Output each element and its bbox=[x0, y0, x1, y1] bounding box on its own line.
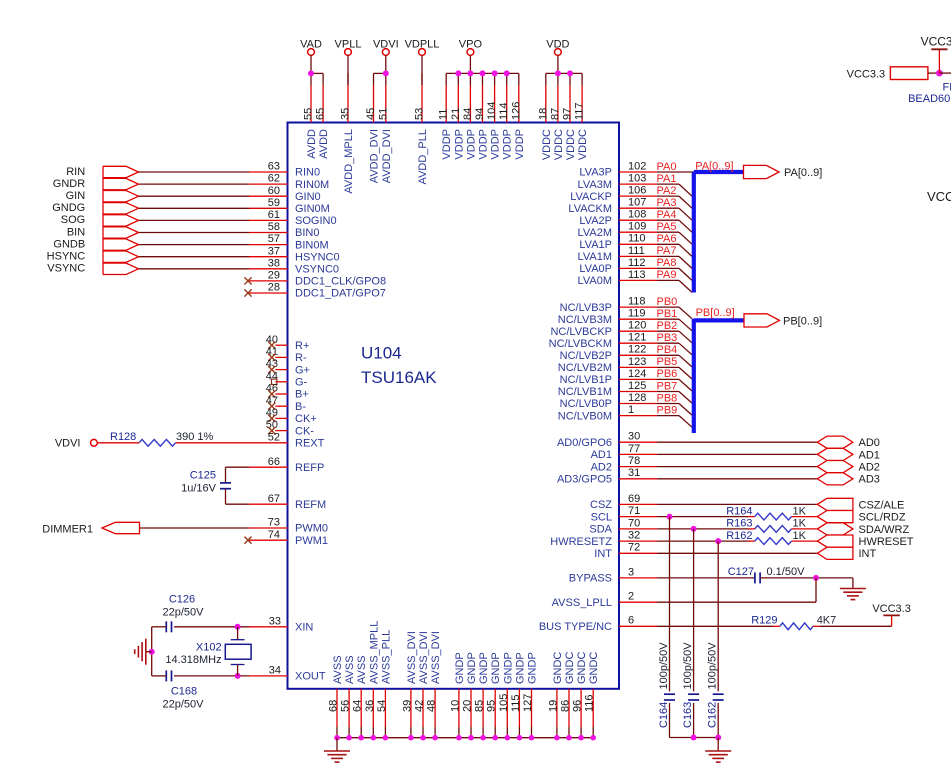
junction VAD bbox=[308, 70, 314, 76]
svg-text:1u/16V: 1u/16V bbox=[181, 483, 217, 495]
svg-text:GNDC: GNDC bbox=[576, 652, 588, 684]
pin 10 (GNDP) bbox=[449, 652, 466, 737]
resistor R128 bbox=[110, 431, 214, 446]
svg-text:C127: C127 bbox=[728, 566, 754, 578]
no-connect X pin 43 bbox=[268, 366, 275, 373]
junction bead bbox=[936, 70, 943, 77]
port HWRESET bbox=[817, 535, 913, 548]
wire REFP to C125 bbox=[226, 467, 250, 483]
pin 61 (SOGIN0) bbox=[249, 209, 337, 227]
svg-text:45: 45 bbox=[365, 108, 377, 120]
svg-text:AD3/GPO5: AD3/GPO5 bbox=[557, 474, 612, 486]
svg-text:HSYNC: HSYNC bbox=[47, 251, 86, 263]
svg-text:PB8: PB8 bbox=[657, 392, 678, 404]
wire SOG bbox=[139, 219, 250, 221]
svg-text:100p/50V: 100p/50V bbox=[682, 642, 694, 690]
pin 124 (NC/LVB1P) bbox=[560, 368, 657, 386]
power VCC3.3 (R129) bbox=[872, 603, 911, 627]
wire PB2 bbox=[657, 331, 692, 343]
svg-text:1K: 1K bbox=[793, 518, 807, 530]
junction rail 36 bbox=[371, 735, 377, 741]
power port VDD bbox=[546, 39, 569, 74]
net label PB4 bbox=[657, 344, 678, 356]
svg-text:NC/LVB0M: NC/LVB0M bbox=[558, 410, 612, 422]
svg-text:69: 69 bbox=[628, 493, 640, 505]
svg-text:AVSS_DVI: AVSS_DVI bbox=[406, 631, 418, 684]
junction rail 56 bbox=[346, 735, 352, 741]
svg-text:VDDP: VDDP bbox=[453, 129, 465, 160]
svg-text:U104: U104 bbox=[361, 344, 402, 363]
junction rail 105 bbox=[505, 735, 511, 741]
svg-text:BYPASS: BYPASS bbox=[569, 573, 612, 585]
svg-text:R-: R- bbox=[295, 352, 307, 364]
junction XIN bbox=[235, 624, 241, 630]
svg-text:VCC3.3: VCC3.3 bbox=[847, 68, 886, 80]
wire GNDR bbox=[139, 183, 250, 185]
pin 74 (PWM1) bbox=[249, 529, 328, 547]
svg-text:VCC3.3: VCC3.3 bbox=[921, 34, 951, 48]
svg-text:GNDC: GNDC bbox=[552, 652, 564, 684]
svg-text:59: 59 bbox=[268, 197, 280, 209]
svg-text:PA[0..9]: PA[0..9] bbox=[695, 160, 733, 172]
wire C164 lower bbox=[669, 703, 671, 738]
pin 65 (AVDD) bbox=[315, 73, 331, 158]
svg-text:AVSS: AVSS bbox=[344, 655, 356, 684]
svg-text:102: 102 bbox=[628, 160, 646, 172]
pin 42 (AVSS_DVI) bbox=[414, 631, 431, 738]
svg-text:NC/LVB1P: NC/LVB1P bbox=[560, 374, 612, 386]
port SCL/RDZ bbox=[817, 511, 906, 524]
wire VAD manifold bbox=[311, 72, 323, 74]
svg-text:PA0: PA0 bbox=[657, 161, 677, 173]
port SDA/WRZ bbox=[817, 523, 909, 536]
svg-text:PA8: PA8 bbox=[657, 257, 677, 269]
svg-text:VDVI: VDVI bbox=[373, 39, 399, 51]
capacitor C126 bbox=[163, 593, 205, 632]
net label PB6 bbox=[657, 368, 678, 380]
svg-text:18: 18 bbox=[537, 108, 549, 120]
port AD1 bbox=[817, 448, 880, 461]
wire PB5 bbox=[657, 367, 692, 379]
svg-text:BIN0: BIN0 bbox=[295, 227, 319, 239]
junction SDA bbox=[691, 526, 697, 532]
svg-text:28: 28 bbox=[268, 282, 280, 294]
pin 111 (LVA1M) bbox=[578, 245, 657, 263]
svg-text:46: 46 bbox=[266, 383, 278, 395]
pin 126 (VDDP) bbox=[510, 73, 526, 159]
svg-text:20: 20 bbox=[462, 700, 474, 712]
svg-text:VDDC: VDDC bbox=[541, 129, 553, 160]
svg-text:GNDG: GNDG bbox=[52, 202, 85, 214]
wire PA8 bbox=[657, 268, 692, 280]
pin 97 (VDDC) bbox=[562, 73, 578, 160]
pin 18 (VDDC) bbox=[537, 73, 553, 160]
svg-text:105: 105 bbox=[498, 694, 510, 712]
svg-text:PA6: PA6 bbox=[657, 233, 677, 245]
port PB[0..9] bbox=[744, 314, 822, 328]
wire C168 left bbox=[152, 675, 167, 677]
wire PB0 bbox=[657, 307, 692, 319]
junction rail 19 bbox=[554, 735, 560, 741]
net label PB2 bbox=[657, 320, 678, 332]
wire C126 left bbox=[152, 626, 167, 628]
junction rail 64 bbox=[358, 735, 364, 741]
wire VDD manifold bbox=[546, 72, 582, 74]
svg-text:34: 34 bbox=[269, 665, 281, 677]
svg-text:68: 68 bbox=[328, 700, 340, 712]
svg-text:42: 42 bbox=[414, 700, 426, 712]
svg-text:36: 36 bbox=[364, 700, 376, 712]
svg-text:87: 87 bbox=[549, 108, 561, 120]
svg-text:67: 67 bbox=[268, 493, 280, 505]
svg-text:GNDP: GNDP bbox=[527, 652, 539, 684]
ferrite bead FB bbox=[890, 67, 951, 105]
crystal X102 bbox=[165, 627, 251, 676]
svg-text:14.318MHz: 14.318MHz bbox=[165, 654, 221, 666]
svg-text:60: 60 bbox=[268, 185, 280, 197]
junction VDD bbox=[567, 70, 573, 76]
wire cap gnd rail bbox=[670, 737, 719, 739]
capacitor C127 bbox=[728, 566, 805, 583]
svg-text:GIN0M: GIN0M bbox=[295, 203, 330, 215]
pin 66 (REFP) bbox=[249, 456, 324, 474]
input arrow GNDG bbox=[103, 203, 139, 214]
wire PA6 bbox=[657, 244, 692, 256]
wire DIMMER1 bbox=[140, 527, 250, 529]
wire BIN bbox=[139, 232, 250, 234]
svg-text:AVSS_MPLL: AVSS_MPLL bbox=[368, 621, 380, 684]
svg-text:38: 38 bbox=[268, 257, 280, 269]
svg-text:VDDC: VDDC bbox=[565, 129, 577, 160]
signal label GNDG bbox=[52, 202, 85, 214]
net label PB0 bbox=[657, 296, 678, 308]
power VCC3.3 top bbox=[921, 34, 951, 73]
svg-text:HWRESETZ: HWRESETZ bbox=[550, 536, 612, 548]
wire C125 to REFM bbox=[226, 489, 250, 504]
pin 127 (GNDP) bbox=[522, 652, 539, 737]
pin 123 (NC/LVB2M) bbox=[558, 356, 657, 374]
wire C163 upper bbox=[693, 529, 695, 692]
pin 54 (AVSS_PLL) bbox=[376, 630, 393, 738]
wire gnd stem bbox=[717, 738, 719, 752]
svg-text:107: 107 bbox=[628, 197, 646, 209]
svg-text:11: 11 bbox=[438, 109, 450, 120]
wire AD0 bbox=[657, 441, 817, 443]
no-connect X pin 46 bbox=[268, 390, 275, 397]
junction VDVI bbox=[383, 70, 389, 76]
no-connect X pin 28 bbox=[244, 289, 251, 296]
svg-text:39: 39 bbox=[401, 700, 413, 712]
signal label GNDB bbox=[53, 238, 85, 250]
svg-text:NC/LVBCKM: NC/LVBCKM bbox=[549, 338, 612, 350]
svg-text:LVACKM: LVACKM bbox=[568, 203, 612, 215]
net label VCC (right edge) bbox=[927, 189, 951, 204]
pin 31 (AD3/GPO5) bbox=[557, 467, 657, 485]
wire C127 to gnd bbox=[760, 578, 853, 589]
input arrow GIN bbox=[103, 191, 139, 202]
svg-text:41: 41 bbox=[266, 346, 278, 358]
svg-text:AD1: AD1 bbox=[859, 449, 880, 461]
svg-text:GIN0: GIN0 bbox=[295, 191, 321, 203]
pin 6 (BUS TYPE/NC) bbox=[539, 615, 657, 633]
wire AVSS_LPLL bbox=[657, 578, 816, 602]
pin 32 (HWRESETZ) bbox=[550, 530, 657, 548]
svg-text:48: 48 bbox=[426, 700, 438, 712]
pin 64 (AVSS) bbox=[352, 655, 369, 737]
svg-text:54: 54 bbox=[376, 700, 388, 712]
svg-text:53: 53 bbox=[414, 108, 426, 120]
no-connect X pin 47 bbox=[268, 403, 275, 410]
svg-text:66: 66 bbox=[268, 456, 280, 468]
signal label RIN bbox=[66, 166, 85, 178]
svg-text:VAD: VAD bbox=[300, 39, 322, 51]
svg-text:R162: R162 bbox=[726, 530, 752, 542]
pin 52 (REXT) bbox=[176, 431, 325, 449]
wire XOUT bbox=[174, 675, 249, 677]
svg-text:109: 109 bbox=[628, 221, 646, 233]
pin 117 (VDDC) bbox=[574, 73, 590, 160]
junction rail 86 bbox=[566, 735, 572, 741]
wire R164 to port bbox=[792, 516, 818, 518]
junction rail 96 bbox=[578, 735, 584, 741]
pin 102 (LVA3P) bbox=[579, 160, 657, 178]
pin 34 (XOUT) bbox=[249, 665, 326, 683]
pin 108 (LVA2P) bbox=[579, 209, 657, 227]
svg-text:AVDD_DVI: AVDD_DVI bbox=[369, 129, 381, 183]
pin 20 (GNDP) bbox=[462, 652, 479, 737]
svg-text:PA1: PA1 bbox=[657, 173, 677, 185]
wire GIN bbox=[139, 195, 250, 197]
pin 37 (HSYNC0) bbox=[249, 245, 340, 263]
net label PB3 bbox=[657, 332, 678, 344]
port INT bbox=[817, 547, 876, 560]
net label PA5 bbox=[657, 221, 677, 233]
wire PB1 bbox=[657, 319, 692, 331]
svg-text:2: 2 bbox=[628, 591, 634, 603]
svg-text:LVA1M: LVA1M bbox=[578, 251, 612, 263]
svg-text:SDA: SDA bbox=[589, 524, 612, 536]
bus label PA[0..9] bbox=[695, 160, 733, 172]
net label VCC3.3 (bead) bbox=[847, 68, 886, 80]
svg-text:AD0/GPO6: AD0/GPO6 bbox=[557, 437, 612, 449]
no-connect X pin 29 bbox=[244, 277, 251, 284]
pin 115 (GNDP) bbox=[510, 652, 527, 737]
svg-text:95: 95 bbox=[486, 700, 498, 712]
pin 50 (CK-) bbox=[266, 419, 315, 437]
svg-text:NC/LVB1M: NC/LVB1M bbox=[558, 386, 612, 398]
svg-text:VDDC: VDDC bbox=[577, 129, 589, 160]
pin 29 (DDC1_CLK/GPO8) bbox=[249, 270, 386, 288]
svg-text:74: 74 bbox=[268, 529, 280, 541]
pin 119 (NC/LVB3M) bbox=[558, 308, 657, 326]
svg-text:VSYNC: VSYNC bbox=[47, 263, 85, 275]
svg-text:PA3: PA3 bbox=[657, 197, 677, 209]
wire R129 to VCC bbox=[813, 625, 892, 627]
pin 103 (LVA3M) bbox=[578, 173, 657, 191]
svg-text:PA[0..9]: PA[0..9] bbox=[784, 167, 822, 179]
svg-text:NC/LVBCKP: NC/LVBCKP bbox=[550, 326, 612, 338]
pin 71 (SCL) bbox=[591, 505, 657, 523]
svg-text:CK-: CK- bbox=[295, 425, 314, 437]
svg-text:50: 50 bbox=[266, 419, 278, 431]
pin 116 (GNDC) bbox=[584, 652, 601, 738]
net label PB5 bbox=[657, 356, 678, 368]
svg-text:GNDP: GNDP bbox=[502, 652, 514, 684]
svg-text:VDDP: VDDP bbox=[490, 129, 502, 160]
junction VPO bbox=[492, 70, 498, 76]
svg-text:NC/LVB0P: NC/LVB0P bbox=[560, 398, 612, 410]
svg-text:C126: C126 bbox=[169, 593, 195, 605]
wire C164 upper bbox=[669, 517, 671, 692]
wire GNDB bbox=[139, 244, 250, 246]
svg-text:73: 73 bbox=[268, 517, 280, 529]
no-connect X pin 74 bbox=[244, 537, 251, 544]
svg-text:77: 77 bbox=[628, 443, 640, 455]
net label PA6 bbox=[657, 233, 677, 245]
svg-text:128: 128 bbox=[628, 392, 646, 404]
pin 38 (VSYNC0) bbox=[249, 257, 339, 275]
svg-text:C164: C164 bbox=[658, 702, 670, 728]
signal label HSYNC bbox=[47, 251, 86, 263]
wire R162 to port bbox=[792, 540, 818, 542]
svg-text:6: 6 bbox=[628, 615, 634, 627]
pin 121 (NC/LVBCKM) bbox=[549, 332, 657, 350]
svg-text:PA2: PA2 bbox=[657, 185, 677, 197]
svg-text:PB[0..9]: PB[0..9] bbox=[783, 315, 822, 327]
pin 63 (RIN0) bbox=[249, 161, 320, 179]
port AD2 bbox=[817, 461, 880, 474]
svg-text:111: 111 bbox=[628, 245, 645, 257]
svg-text:0.1/50V: 0.1/50V bbox=[767, 566, 806, 578]
svg-text:LVA0P: LVA0P bbox=[579, 263, 612, 275]
net label PB7 bbox=[657, 380, 678, 392]
svg-text:57: 57 bbox=[268, 233, 280, 245]
svg-text:BIN: BIN bbox=[67, 226, 85, 238]
net label PA0 bbox=[657, 161, 677, 173]
svg-text:127: 127 bbox=[522, 694, 534, 712]
svg-text:GNDP: GNDP bbox=[454, 652, 466, 684]
ground (crystal) bbox=[135, 639, 146, 665]
junction rail 85 bbox=[480, 735, 486, 741]
svg-text:61: 61 bbox=[268, 209, 280, 221]
svg-text:TSU16AK: TSU16AK bbox=[361, 368, 437, 387]
net label PB8 bbox=[657, 392, 678, 404]
wire PA2 bbox=[657, 196, 692, 208]
resistor R163 bbox=[726, 518, 806, 533]
junction XOUT bbox=[235, 673, 241, 679]
svg-text:C125: C125 bbox=[190, 470, 216, 482]
svg-text:AVSS_PLL: AVSS_PLL bbox=[380, 630, 392, 684]
svg-text:108: 108 bbox=[628, 209, 646, 221]
bus PB horizontal bbox=[694, 318, 744, 322]
wire CSZ bbox=[657, 503, 817, 505]
svg-text:PB0: PB0 bbox=[657, 296, 678, 308]
svg-text:HWRESET: HWRESET bbox=[859, 536, 914, 548]
pin 67 (REFM) bbox=[249, 493, 326, 511]
pin 70 (SDA) bbox=[589, 517, 657, 535]
svg-text:390 1%: 390 1% bbox=[176, 431, 214, 443]
svg-text:DDC1_DAT/GPO7: DDC1_DAT/GPO7 bbox=[295, 288, 386, 300]
svg-text:X102: X102 bbox=[196, 642, 222, 654]
wire PB8 bbox=[657, 404, 692, 416]
svg-text:R164: R164 bbox=[726, 505, 752, 517]
svg-text:51: 51 bbox=[377, 108, 389, 120]
signal label BIN bbox=[67, 226, 85, 238]
pin 3 (BYPASS) bbox=[569, 566, 657, 584]
svg-text:VDDC: VDDC bbox=[553, 129, 565, 160]
pin 112 (LVA0P) bbox=[579, 257, 657, 275]
svg-text:PA5: PA5 bbox=[657, 221, 677, 233]
svg-text:REFM: REFM bbox=[295, 499, 326, 511]
svg-text:PA7: PA7 bbox=[657, 245, 677, 257]
wire gnd stem left bbox=[336, 738, 338, 751]
svg-text:97: 97 bbox=[562, 108, 574, 120]
svg-text:31: 31 bbox=[628, 467, 640, 479]
wire PA3 bbox=[657, 208, 692, 220]
input arrow RIN bbox=[103, 166, 139, 177]
pin 118 (NC/LVB3P) bbox=[560, 296, 657, 314]
svg-text:PB2: PB2 bbox=[657, 320, 678, 332]
svg-text:GNDB: GNDB bbox=[53, 238, 85, 250]
signal label GNDR bbox=[53, 178, 85, 190]
svg-text:NC/LVB3M: NC/LVB3M bbox=[558, 314, 612, 326]
svg-text:110: 110 bbox=[628, 233, 646, 245]
pin 39 (AVSS_DVI) bbox=[401, 631, 418, 738]
net label PA4 bbox=[657, 209, 677, 221]
svg-text:PA4: PA4 bbox=[657, 209, 677, 221]
no-connect X pin 41 bbox=[268, 354, 275, 361]
svg-text:CK+: CK+ bbox=[295, 413, 317, 425]
svg-text:BEAD60: BEAD60 bbox=[908, 93, 950, 105]
wire HWRESETZ bbox=[657, 540, 755, 542]
pin 68 (AVSS) bbox=[328, 655, 345, 737]
input arrow VSYNC bbox=[103, 263, 139, 274]
svg-text:C163: C163 bbox=[682, 702, 694, 728]
svg-text:SOG: SOG bbox=[61, 214, 85, 226]
svg-text:106: 106 bbox=[628, 185, 646, 197]
pin 59 (GIN0M) bbox=[249, 197, 330, 215]
svg-text:PB7: PB7 bbox=[657, 380, 678, 392]
svg-text:55: 55 bbox=[303, 108, 315, 120]
svg-text:AVSS_DVI: AVSS_DVI bbox=[418, 631, 430, 684]
svg-text:104: 104 bbox=[486, 102, 498, 120]
junction rail 95 bbox=[492, 735, 498, 741]
wire PA4 bbox=[657, 220, 692, 232]
svg-text:NC/LVB2P: NC/LVB2P bbox=[560, 350, 612, 362]
no-connect X pin 50 bbox=[268, 427, 275, 434]
junction rail 68 bbox=[334, 735, 340, 741]
svg-text:LVA0M: LVA0M bbox=[578, 275, 612, 287]
wire HSYNC bbox=[139, 256, 250, 258]
power port VAD bbox=[300, 39, 322, 74]
svg-text:AVDD: AVDD bbox=[318, 129, 330, 159]
wire PB7 bbox=[657, 392, 692, 404]
svg-text:118: 118 bbox=[628, 296, 646, 308]
pin 21 (VDDP) bbox=[450, 73, 466, 159]
junction crystal gnd bbox=[149, 649, 155, 655]
port PA[0..9] bbox=[744, 165, 823, 179]
svg-text:122: 122 bbox=[628, 344, 646, 356]
svg-text:LVA3M: LVA3M bbox=[578, 179, 612, 191]
net label PA9 bbox=[657, 269, 677, 281]
pin 19 (GNDC) bbox=[547, 652, 564, 738]
svg-text:112: 112 bbox=[628, 257, 646, 269]
svg-text:72: 72 bbox=[628, 542, 640, 554]
no-ERC square pin 44 bbox=[272, 379, 277, 384]
wire BYPASS to C127 bbox=[657, 577, 755, 579]
svg-text:GNDP: GNDP bbox=[514, 652, 526, 684]
svg-text:PA9: PA9 bbox=[657, 269, 677, 281]
